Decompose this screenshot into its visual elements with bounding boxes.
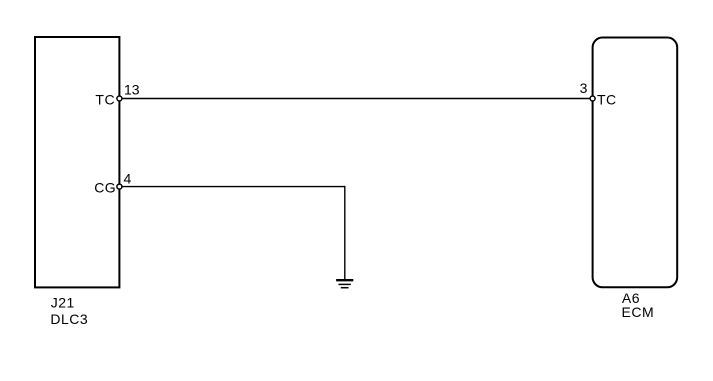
svg-text:DLC3: DLC3 — [50, 311, 88, 327]
svg-text:CG: CG — [94, 180, 116, 196]
ECM A6 box — [593, 38, 678, 288]
wire CG vertical segment to ground — [344, 186, 346, 280]
svg-text:ECM: ECM — [622, 304, 655, 320]
svg-text:J21: J21 — [51, 295, 75, 311]
wire CG horizontal segment — [119, 186, 345, 188]
connector J21 DLC3 box — [35, 37, 119, 287]
pin 13 terminal — [117, 96, 122, 101]
pin 3 terminal — [590, 96, 595, 101]
svg-text:TC: TC — [597, 91, 617, 107]
svg-text:4: 4 — [124, 171, 132, 187]
svg-text:3: 3 — [580, 80, 588, 96]
pin 4 terminal — [117, 184, 122, 189]
svg-text:13: 13 — [124, 82, 140, 98]
svg-text:TC: TC — [95, 91, 115, 107]
wire TC net (pin 13 to pin 3) — [119, 98, 592, 100]
ground — [336, 280, 353, 288]
